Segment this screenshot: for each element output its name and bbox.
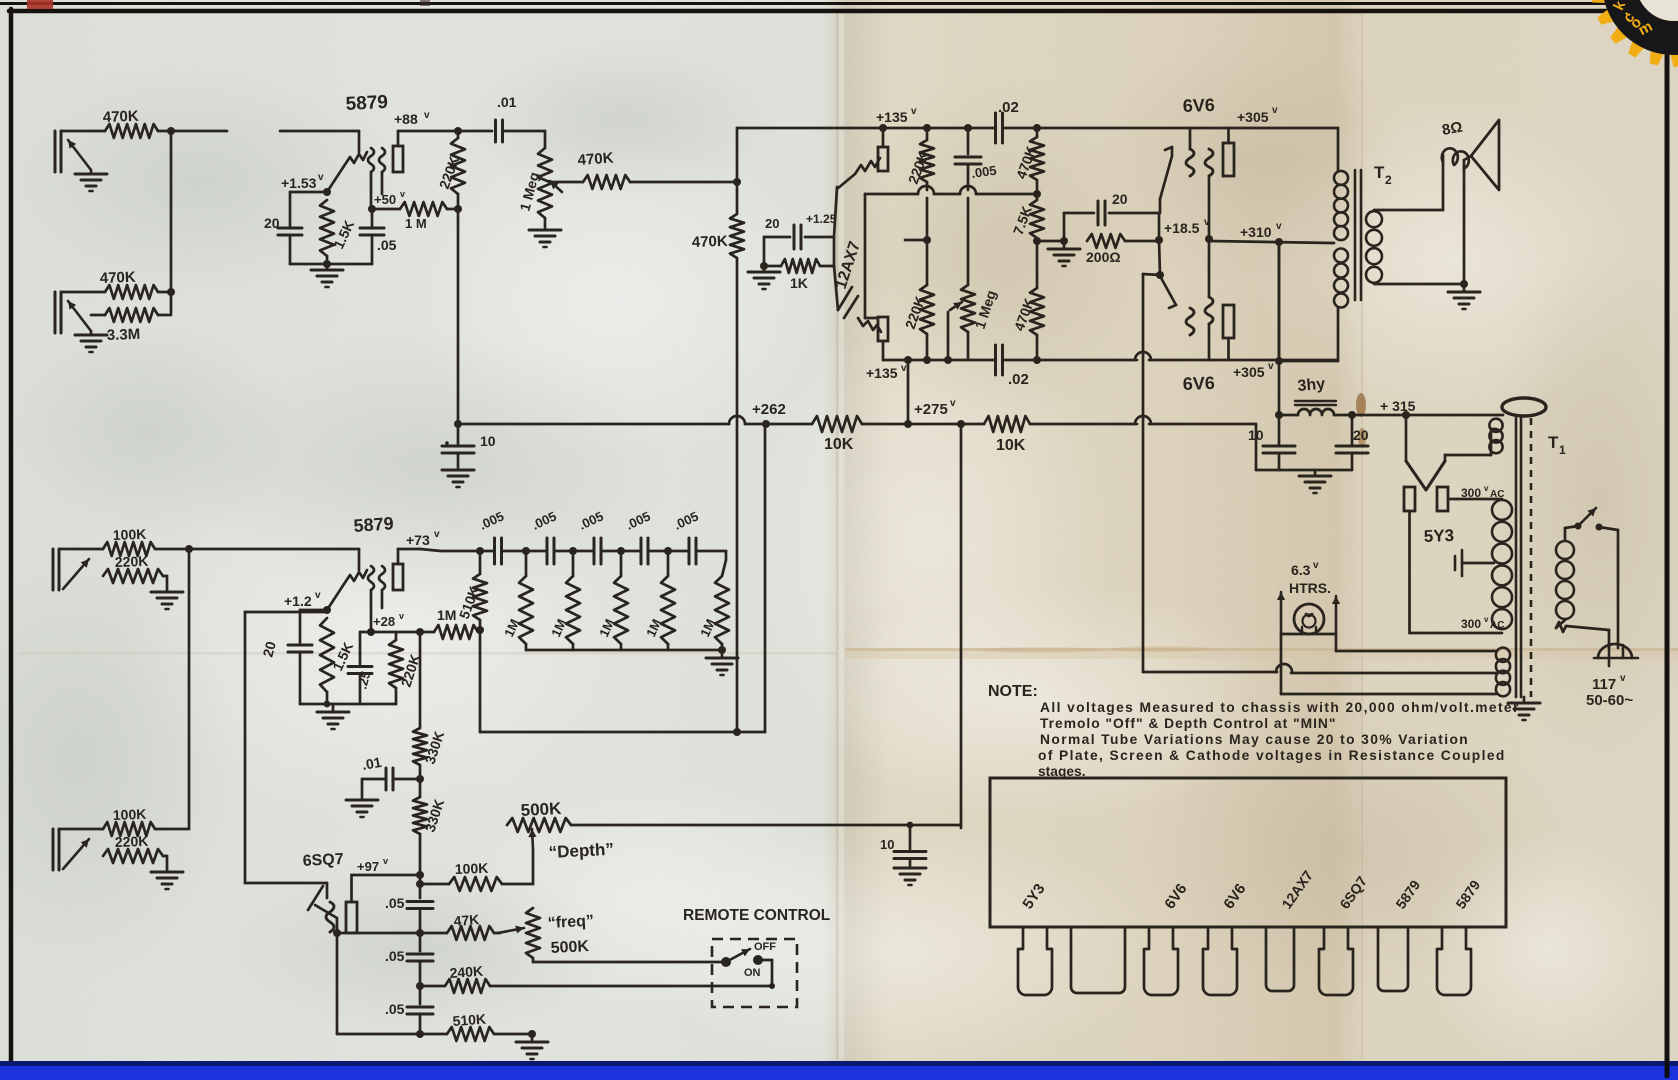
label 117V bbox=[1592, 673, 1626, 693]
node screen +310 bbox=[1205, 235, 1213, 243]
resistor 220K (J4) bbox=[103, 833, 163, 863]
svg-text:20: 20 bbox=[264, 215, 280, 231]
capacitor .01 (osc) bbox=[361, 754, 420, 798]
wire +1.2 to loop bbox=[245, 611, 327, 614]
wire 220K-2 drop bbox=[905, 198, 931, 285]
capacitor .05 (V1) bbox=[360, 209, 397, 264]
label tube 5Y3 bbox=[1019, 881, 1048, 913]
resistor 510K (trem) bbox=[420, 1011, 532, 1041]
label 470K J2 bbox=[100, 269, 137, 287]
svg-text:100K: 100K bbox=[113, 526, 147, 543]
svg-text:+97: +97 bbox=[357, 859, 379, 874]
svg-text:20: 20 bbox=[1353, 427, 1369, 443]
heater arrow right bbox=[1332, 596, 1340, 634]
svg-text:10: 10 bbox=[480, 433, 496, 449]
wire bus to V2 grid bbox=[189, 548, 359, 551]
label NOTE bbox=[988, 683, 1038, 700]
label 1M ladder 4 bbox=[643, 617, 664, 640]
potentiometer 500K Depth bbox=[507, 799, 571, 849]
wire 5Y3 left plate bbox=[1410, 511, 1503, 633]
transformer T2 core bbox=[1355, 170, 1361, 300]
border frame outer top line bbox=[0, 2, 1678, 5]
ground 6V6 cathode bbox=[1048, 241, 1080, 266]
capacitor .005 (12AX7) bbox=[955, 128, 981, 190]
label Depth bbox=[548, 840, 614, 862]
label tube 5879 bbox=[1452, 877, 1483, 912]
svg-text:3hy: 3hy bbox=[1297, 376, 1326, 395]
wire mixer vertical bbox=[736, 128, 739, 732]
node V1 cathode bottom bbox=[323, 260, 331, 268]
socket 6V6 a bbox=[1144, 927, 1178, 995]
svg-text:1: 1 bbox=[1559, 443, 1566, 457]
tube 12AX7 lower triode bbox=[838, 287, 888, 360]
svg-text:220K: 220K bbox=[115, 833, 149, 850]
ground V1 cathode bbox=[311, 264, 343, 287]
wire T2 sec to speaker bbox=[1442, 155, 1445, 210]
note line 1 bbox=[1040, 700, 1520, 715]
label tube 12AX7 bbox=[1278, 867, 1316, 911]
node depth cap bbox=[907, 822, 914, 829]
wire 1M to 510K bbox=[476, 626, 484, 634]
capacitor hum bbox=[1455, 550, 1494, 576]
wire +275 drop bbox=[904, 356, 912, 424]
wire 1Meg bottom bbox=[967, 344, 970, 360]
svg-text:500K: 500K bbox=[550, 938, 590, 957]
node 330K tap bbox=[416, 628, 424, 636]
node .01 tap bbox=[416, 775, 424, 783]
input jack J3 bbox=[53, 549, 103, 590]
capacitor .005 ladder 4 bbox=[623, 508, 652, 564]
resistor 220K (V2) bbox=[389, 632, 403, 704]
svg-text:T: T bbox=[1374, 163, 1385, 182]
node choke right bbox=[1348, 411, 1356, 419]
svg-text:20: 20 bbox=[765, 216, 779, 231]
label 330K 1 bbox=[422, 729, 448, 766]
label 220K 12AX7-1 bbox=[905, 149, 931, 186]
svg-text:1M: 1M bbox=[437, 607, 456, 623]
node 240K bbox=[416, 982, 424, 990]
resistor 470K (J2 series) bbox=[105, 285, 158, 299]
note line 3 bbox=[1040, 732, 1469, 747]
svg-text:of Plate, Screen & Cathode vol: of Plate, Screen & Cathode voltages in R… bbox=[1038, 748, 1506, 763]
svg-text:+88: +88 bbox=[394, 111, 418, 127]
socket 6V6 b bbox=[1203, 927, 1237, 995]
node +50V bbox=[368, 189, 405, 213]
capacitor .02 upper bbox=[996, 99, 1019, 143]
svg-text:NOTE:: NOTE: bbox=[988, 683, 1038, 700]
label 220K V2 bbox=[398, 652, 424, 689]
svg-text:470K: 470K bbox=[103, 108, 140, 126]
label +262 bbox=[752, 401, 786, 418]
capacitor .005 ladder 2 bbox=[529, 508, 558, 564]
resistor 330K #1 bbox=[413, 728, 427, 779]
label T2 bbox=[1374, 163, 1392, 187]
resistor 1M (V1) bbox=[372, 202, 447, 231]
wire J1 bus bbox=[158, 131, 359, 313]
label 6V6 upper bbox=[1182, 95, 1215, 116]
input jack J2 bbox=[55, 292, 105, 333]
node 6V6 cathode bbox=[1155, 213, 1163, 244]
socket spare bbox=[1071, 927, 1125, 993]
ground trem bbox=[516, 1034, 548, 1059]
node 10cap bbox=[454, 420, 462, 428]
wire primary bottom bbox=[1556, 620, 1609, 648]
wire +28 node bbox=[360, 631, 396, 634]
tube 6V6 upper bbox=[1160, 128, 1234, 239]
wire 6V6 cath to grid node bbox=[1159, 240, 1160, 275]
resistor 220K (12AX7 plate 1) bbox=[920, 128, 934, 190]
svg-text:+18.5: +18.5 bbox=[1164, 220, 1200, 236]
svg-text:v: v bbox=[424, 110, 430, 121]
socket 5879 b bbox=[1437, 927, 1471, 995]
resistor 1M ladder 1 bbox=[519, 551, 533, 650]
resistor 1M ladder 2 bbox=[566, 551, 580, 650]
node +310/choke bbox=[1275, 238, 1283, 246]
label +310V bbox=[1240, 221, 1282, 240]
svg-text:6V6: 6V6 bbox=[1182, 95, 1215, 116]
ground J1 bbox=[75, 170, 107, 191]
border frame left line bbox=[9, 9, 14, 1062]
svg-text:510K: 510K bbox=[452, 1011, 487, 1029]
capacitor .05 #3 bbox=[385, 986, 433, 1034]
label +135V (upper) bbox=[876, 106, 917, 125]
wire y194 bus bbox=[865, 186, 1037, 194]
capacitor 20 (6V6 cathode) bbox=[1064, 191, 1159, 225]
wire depth feed bbox=[957, 420, 965, 828]
choke 3hy bbox=[1279, 401, 1395, 415]
label +315 bbox=[1380, 398, 1416, 414]
label +275 bbox=[914, 398, 956, 418]
label .005 bbox=[970, 163, 997, 181]
svg-text:+310: +310 bbox=[1240, 224, 1272, 240]
svg-text:+305: +305 bbox=[1233, 364, 1265, 380]
label 1M ladder 1 bbox=[501, 617, 522, 640]
svg-text:All voltages Measured to chass: All voltages Measured to chassis with 20… bbox=[1040, 700, 1520, 715]
wire filter bottom bbox=[1256, 424, 1352, 470]
rectifier 5Y3 filament bbox=[1406, 415, 1445, 490]
label 330K 2 bbox=[422, 797, 448, 834]
svg-text:+1.2: +1.2 bbox=[284, 593, 312, 609]
resistor 100K (J3) bbox=[103, 526, 155, 556]
note line 5 bbox=[1038, 764, 1086, 779]
svg-text:+ 315: + 315 bbox=[1380, 398, 1416, 414]
wire heater bottom bbox=[1281, 634, 1496, 694]
label 1.5K V2 bbox=[329, 640, 356, 674]
wire channel2 bus bbox=[188, 549, 191, 829]
transformer T1 primary winding bbox=[1556, 541, 1574, 619]
wire cathode box V2 bbox=[300, 610, 396, 704]
label tube 5879 bbox=[1392, 877, 1423, 912]
capacitor .005 ladder 3 bbox=[576, 508, 605, 564]
svg-text:T: T bbox=[1548, 433, 1559, 452]
svg-text:240K: 240K bbox=[449, 963, 484, 981]
wire primary top bbox=[1565, 526, 1578, 540]
label REMOTE CONTROL bbox=[683, 907, 830, 924]
resistor 470K (PI lower) bbox=[1030, 241, 1044, 360]
label 1Meg trem bbox=[972, 288, 999, 331]
wire 220K down to +262 bbox=[457, 209, 460, 424]
label 220K 12AX7-2 bbox=[902, 294, 928, 331]
capacitor 10 (filter) bbox=[1248, 415, 1295, 470]
node +275 bbox=[904, 420, 912, 428]
node 220K bottom bbox=[454, 205, 462, 213]
svg-text:8Ω: 8Ω bbox=[1441, 119, 1464, 139]
resistor 1.5K (V1 cathode) bbox=[320, 200, 334, 264]
capacitor 10 (stage 1 decoupling) bbox=[442, 424, 496, 453]
wire speaker down bbox=[1460, 160, 1468, 288]
svg-text:.05: .05 bbox=[377, 237, 397, 253]
tube 12AX7 upper triode bbox=[837, 128, 888, 189]
node 470K bottom bbox=[1033, 356, 1041, 364]
resistor 200 ohm bbox=[1086, 234, 1158, 265]
node 47K bbox=[416, 929, 424, 937]
wire J3 bus bbox=[155, 548, 189, 551]
svg-text:.01: .01 bbox=[361, 754, 383, 773]
border frame inner top line bbox=[9, 9, 1678, 14]
wire +310 bbox=[1209, 241, 1332, 243]
wire lower grid bbox=[865, 317, 878, 320]
speaker voice coil 8ohm bbox=[1441, 119, 1469, 172]
svg-text:1K: 1K bbox=[790, 275, 808, 291]
label 1M ladder 3 bbox=[596, 617, 617, 640]
svg-text:“Depth”: “Depth” bbox=[548, 840, 614, 862]
note line 2 bbox=[1040, 716, 1336, 731]
label 510K bbox=[456, 584, 482, 621]
node remote on bbox=[769, 983, 775, 989]
label 3.3M bbox=[107, 326, 141, 344]
svg-text:REMOTE CONTROL: REMOTE CONTROL bbox=[683, 907, 830, 924]
capacitor 20 +1.25 (12AX7 cathode) bbox=[764, 212, 837, 249]
svg-text:100K: 100K bbox=[113, 806, 147, 823]
svg-text:+1.25: +1.25 bbox=[806, 212, 837, 226]
label tube 6V6 bbox=[1220, 881, 1249, 913]
wire lamp bus bbox=[1281, 627, 1336, 634]
ground V2 cathode bbox=[317, 701, 349, 729]
svg-text:5879: 5879 bbox=[345, 92, 388, 115]
wire cath to 47K node bbox=[337, 932, 420, 935]
plug 117V bbox=[1594, 644, 1638, 666]
svg-text:.05: .05 bbox=[385, 948, 405, 964]
wire choke feed vertical bbox=[1278, 242, 1281, 415]
wire 1M to 220K bbox=[447, 208, 458, 211]
socket 5879 a bbox=[1378, 927, 1408, 991]
resistor 1M ladder 4 bbox=[661, 551, 675, 650]
node 1037/128 bbox=[1033, 124, 1041, 132]
transformer T1 winding top bbox=[1489, 419, 1502, 454]
label 1Meg bbox=[516, 170, 542, 212]
svg-text:.02: .02 bbox=[998, 99, 1019, 116]
plate 5Y3 left bbox=[1404, 487, 1415, 511]
capacitor .005 ladder 1 bbox=[477, 508, 506, 564]
resistor 220K (V1 plate) bbox=[451, 131, 465, 209]
tube 6SQ7 bbox=[308, 875, 357, 933]
node choke left bbox=[1275, 411, 1283, 419]
label 470K J1 bbox=[103, 108, 140, 126]
wire mixer to 12AX7 grid bbox=[737, 127, 848, 130]
node 6V6-2 grid bbox=[1156, 271, 1164, 279]
node +88 bus bbox=[454, 127, 462, 135]
svg-text:HTRS.: HTRS. bbox=[1289, 580, 1331, 596]
svg-text:v: v bbox=[1484, 484, 1489, 493]
label 500K freq bbox=[550, 938, 590, 957]
node 510K-b bbox=[416, 1030, 424, 1038]
svg-text:v: v bbox=[434, 529, 440, 540]
remote control box bbox=[712, 939, 797, 1007]
label +97V bbox=[357, 856, 388, 874]
label +305V lower bbox=[1233, 361, 1274, 380]
wire +88 bus bbox=[398, 130, 492, 133]
wire 6SQ7 cathode bbox=[315, 905, 420, 1034]
switch remote bbox=[721, 949, 763, 967]
switch mains bbox=[1575, 508, 1603, 531]
wire ladder bottom rail bbox=[526, 646, 726, 654]
wire cathode box V1 bbox=[290, 192, 372, 264]
svg-text:117: 117 bbox=[1592, 676, 1616, 693]
svg-text:v: v bbox=[315, 590, 321, 601]
resistor 100K (J4) bbox=[103, 806, 155, 836]
capacitor 20 (filter) bbox=[1336, 415, 1369, 470]
red mark top edge bbox=[27, 0, 430, 9]
svg-text:10K: 10K bbox=[824, 436, 854, 453]
ground 1Meg bbox=[529, 218, 561, 247]
svg-text:+262: +262 bbox=[752, 401, 786, 418]
svg-text:470K: 470K bbox=[692, 233, 729, 251]
plate 5Y3 right bbox=[1437, 487, 1448, 511]
resistor 470K (mixer ch1) bbox=[577, 150, 630, 189]
resistor 1K (12AX7 cathode) bbox=[764, 259, 834, 291]
label 1M ladder 5 bbox=[697, 617, 718, 640]
svg-text:v: v bbox=[1268, 361, 1274, 372]
ground 1K bbox=[748, 266, 780, 289]
node .005 top bbox=[964, 124, 972, 132]
resistor 220K (J3) bbox=[103, 553, 163, 583]
wire +135 rail lower bbox=[883, 352, 1338, 360]
label +305V upper bbox=[1237, 105, 1278, 125]
svg-text:2: 2 bbox=[1385, 173, 1392, 187]
wire freq bottom bbox=[533, 958, 726, 962]
svg-text:1 M: 1 M bbox=[405, 216, 427, 231]
svg-text:+28: +28 bbox=[373, 614, 395, 629]
ground cap10 bbox=[442, 454, 474, 487]
ground T1 bbox=[1508, 697, 1540, 720]
label +73V bbox=[406, 529, 440, 548]
label 1M ladder 2 bbox=[548, 617, 569, 640]
svg-text:OFF: OFF bbox=[754, 941, 776, 953]
node cath net left bbox=[1060, 213, 1068, 245]
svg-text:+1.53: +1.53 bbox=[281, 175, 317, 191]
svg-text:“freq”: “freq” bbox=[547, 913, 594, 932]
wire 5Y3 right plate bbox=[1448, 498, 1502, 501]
logo gear top-right bbox=[1590, 0, 1678, 67]
node plate R upper bbox=[879, 124, 887, 132]
svg-text:47K: 47K bbox=[453, 911, 480, 929]
chassis box bbox=[990, 778, 1506, 927]
svg-text:50-60~: 50-60~ bbox=[1586, 692, 1633, 709]
node y194 bbox=[1033, 190, 1041, 198]
node +97 bbox=[416, 871, 424, 879]
ladder nodes bbox=[476, 547, 672, 555]
wire +262 rail bbox=[458, 416, 766, 424]
node V1 cathode +1.53V bbox=[281, 172, 331, 196]
svg-text:.01: .01 bbox=[497, 94, 517, 110]
wire 3.3M bbox=[91, 314, 171, 317]
svg-text:10: 10 bbox=[880, 837, 894, 852]
label 300VAC lower bbox=[1461, 615, 1504, 631]
wire switch to plug bbox=[1599, 527, 1618, 648]
ground 10 trem bbox=[894, 868, 926, 885]
ground ladder bbox=[706, 650, 738, 675]
node lower +135 a bbox=[923, 356, 952, 364]
wire depth right bbox=[571, 824, 961, 827]
wire V2 plate bbox=[398, 549, 441, 551]
svg-text:.05: .05 bbox=[385, 895, 405, 911]
label 3hy bbox=[1297, 376, 1326, 395]
wire +305 lower rail corner bbox=[1275, 242, 1338, 365]
transformer T1 top eyelet bbox=[1502, 398, 1546, 416]
wire 6SQ7 plate bbox=[352, 874, 421, 877]
svg-text:+275: +275 bbox=[914, 401, 948, 418]
label 5Y3 bbox=[1423, 526, 1454, 546]
resistor 10K (decoupling 1) bbox=[766, 416, 908, 432]
label 12AX7 bbox=[833, 239, 864, 291]
resistor 510K (ladder) bbox=[473, 551, 487, 732]
svg-text:v: v bbox=[1272, 105, 1278, 116]
blue banner bottom bbox=[0, 1060, 1678, 1080]
svg-text:3.3M: 3.3M bbox=[107, 326, 141, 344]
capacitor .25 (V2) bbox=[348, 632, 374, 704]
ground speaker bbox=[1448, 284, 1480, 309]
node +262 bbox=[762, 420, 770, 428]
tube 5879 V1 bbox=[327, 131, 403, 206]
capacitor .005 ladder 5 bbox=[671, 508, 700, 564]
svg-text:v: v bbox=[383, 856, 388, 866]
resistor 7.5K bbox=[1030, 194, 1044, 241]
capacitor 10 (trem filter) bbox=[880, 825, 926, 868]
svg-text:+73: +73 bbox=[406, 532, 430, 548]
speaker horn bbox=[1464, 120, 1499, 190]
label freq bbox=[547, 913, 594, 932]
svg-text:470K: 470K bbox=[100, 269, 137, 287]
svg-text:v: v bbox=[1620, 673, 1626, 684]
svg-text:Tremolo "Off" & Depth Control: Tremolo "Off" & Depth Control at "MIN" bbox=[1040, 716, 1336, 731]
label 1.5K bbox=[330, 218, 357, 252]
wire 7.5K to cathode node bbox=[1037, 240, 1064, 243]
node +28V bbox=[367, 611, 404, 636]
svg-text:470K: 470K bbox=[577, 150, 614, 169]
resistor 100K (depth) bbox=[449, 849, 533, 891]
label +88V bbox=[394, 110, 430, 127]
node J1 bus bbox=[167, 127, 175, 135]
capacitor .01 (coupling V1) bbox=[496, 94, 546, 142]
svg-text:ON: ON bbox=[744, 967, 761, 979]
svg-text:Normal Tube Variations May cau: Normal Tube Variations May cause 20 to 3… bbox=[1040, 732, 1469, 747]
transformer T2 primary bbox=[1332, 128, 1348, 361]
resistor 1M (V2) bbox=[396, 607, 478, 639]
label 220K V1 bbox=[436, 154, 462, 191]
input jack J1 bbox=[55, 131, 105, 172]
label 10K 2 bbox=[996, 437, 1026, 454]
resistor 3.3M bbox=[105, 308, 158, 322]
resistor 470K (mixer) bbox=[730, 214, 744, 258]
svg-text:v: v bbox=[1484, 615, 1489, 624]
potentiometer 1Meg (tremolo depth inj) bbox=[948, 285, 975, 360]
svg-text:v: v bbox=[399, 611, 404, 621]
transformer T2 secondary bbox=[1366, 210, 1464, 284]
svg-text:+50: +50 bbox=[374, 192, 396, 207]
wire ladder return bbox=[480, 424, 765, 736]
wire grid drop left bbox=[864, 194, 867, 318]
label OFF bbox=[754, 941, 776, 953]
